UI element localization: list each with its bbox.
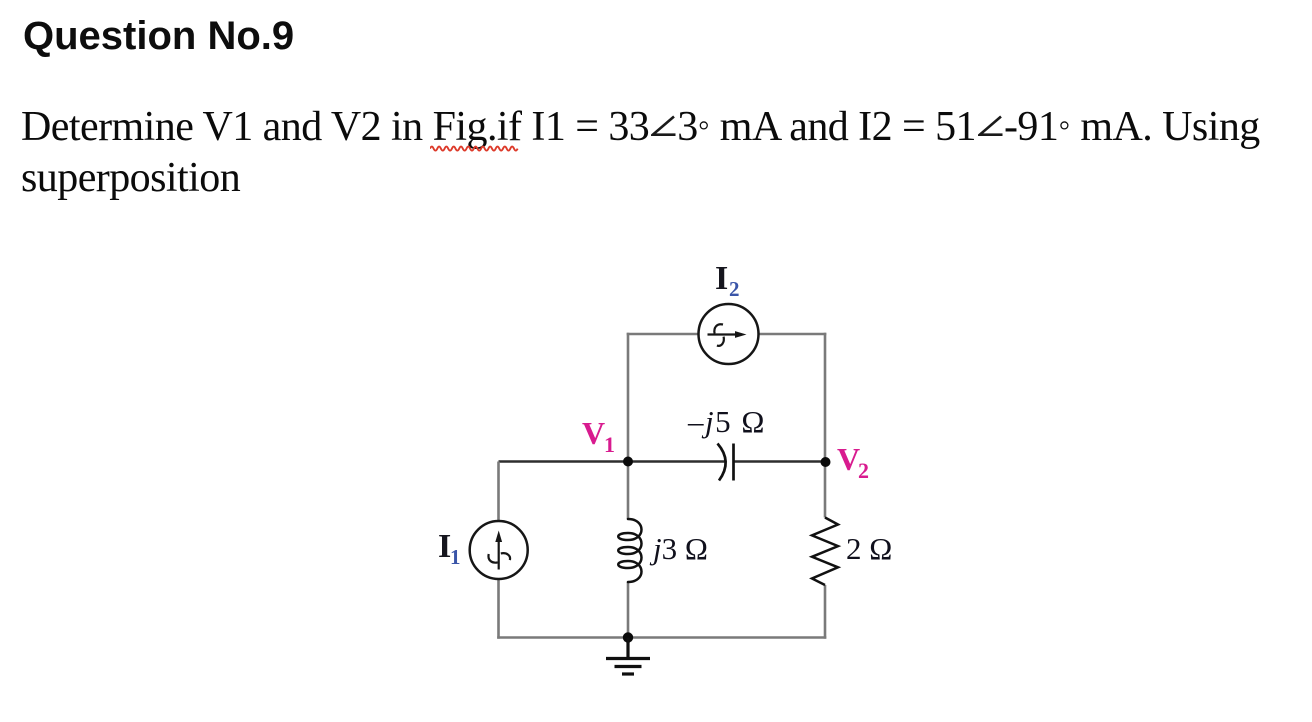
problem text: [21, 103, 1312, 203]
ground: [606, 638, 650, 675]
wire: middle rail, capacitor right plate to node V2: [734, 460, 826, 462]
svg-text:V: V: [582, 415, 605, 451]
wire: right branch vertical from resistor bottom to bottom rail: [824, 585, 827, 639]
wire: left branch vertical above source I1: [497, 462, 500, 522]
svg-text:2 Ω: 2 Ω: [846, 531, 892, 566]
current source I2 arrow: [708, 324, 747, 346]
svg-text:–j5 Ω: –j5 Ω: [687, 404, 766, 439]
current source I1 arrow: [488, 531, 510, 570]
wire: left branch vertical below source I1: [497, 579, 500, 639]
resistor R (2 ohm) zigzag: [812, 518, 838, 586]
node V1 junction dot: [623, 457, 633, 467]
bottom ground node junction dot: [623, 632, 633, 642]
svg-text:1: 1: [450, 545, 461, 569]
wire: middle rail, node V1 to capacitor left plate: [628, 460, 726, 462]
wire: middle branch vertical from inductor bottom to bottom node: [627, 582, 630, 639]
wire: middle branch vertical from node V1 to inductor top: [627, 462, 630, 520]
red wavy spell-check underline under "Fig.if": [430, 144, 522, 154]
wire: middle branch vertical from node V1 up to top rail: [627, 333, 630, 462]
svg-text:V: V: [837, 441, 860, 477]
wire: top rail left of source I2: [627, 333, 699, 336]
capacitor C (-j5 ohm) plates: [718, 444, 734, 481]
svg-text:2: 2: [858, 458, 869, 483]
wire: right branch vertical from top rail down to node V2: [824, 333, 827, 462]
svg-text:2: 2: [729, 277, 740, 301]
wire: bottom rail: [497, 636, 826, 639]
wire: top rail right of source I2: [759, 333, 827, 336]
svg-text:I: I: [715, 260, 728, 297]
inductor L (j3 ohm) coil: [618, 519, 641, 582]
svg-text:1: 1: [604, 432, 615, 457]
wire: middle rail left segment (left corner to node V1): [499, 460, 629, 462]
current source I2 (circle): [699, 304, 759, 364]
svg-text:j3 Ω: j3 Ω: [649, 531, 708, 566]
node V2 junction dot: [821, 457, 831, 467]
current source I1 (circle): [470, 521, 528, 579]
wire: right branch vertical from node V2 to resistor top: [824, 462, 827, 518]
heading: [23, 16, 294, 56]
